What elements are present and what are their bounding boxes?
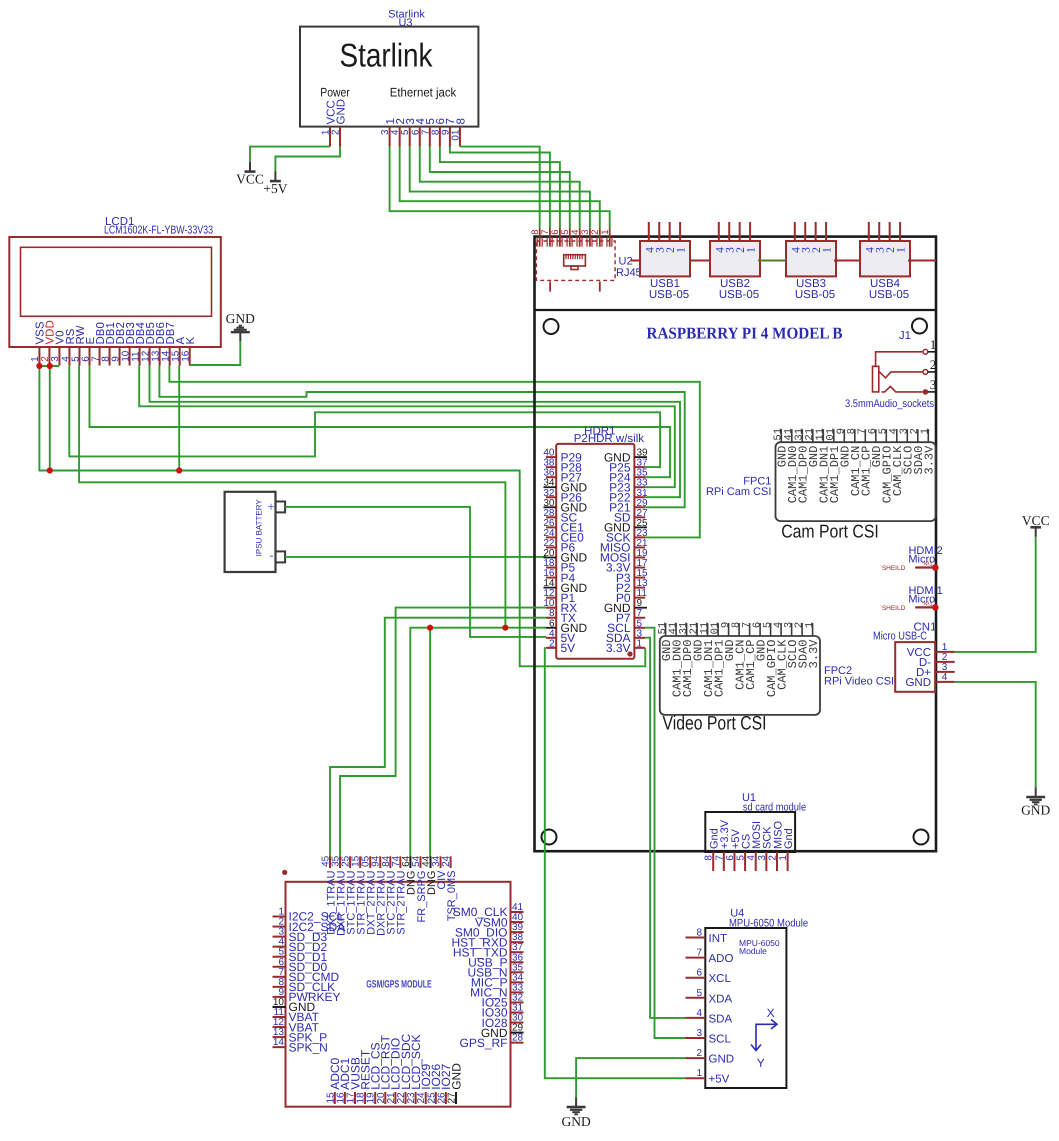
svg-text:1: 1 bbox=[896, 247, 908, 253]
svg-text:8: 8 bbox=[455, 118, 467, 124]
svg-text:LCM1602K-FL-YBW-33V33: LCM1602K-FL-YBW-33V33 bbox=[104, 225, 213, 237]
svg-text:USB-05: USB-05 bbox=[719, 289, 759, 301]
svg-text:5: 5 bbox=[736, 855, 747, 861]
svg-text:ADO: ADO bbox=[709, 953, 734, 965]
svg-text:Micro USB-C: Micro USB-C bbox=[873, 631, 927, 643]
svg-text:Gnd: Gnd bbox=[783, 828, 795, 849]
svg-text:4: 4 bbox=[570, 230, 581, 235]
svg-text:4: 4 bbox=[942, 672, 948, 683]
svg-text:Video Port CSI: Video Port CSI bbox=[663, 713, 767, 735]
svg-text:6: 6 bbox=[550, 230, 561, 235]
svg-text:P2HDR w/silk: P2HDR w/silk bbox=[574, 433, 645, 445]
svg-text:SHEILD: SHEILD bbox=[882, 605, 906, 612]
svg-text:3: 3 bbox=[930, 377, 937, 392]
svg-text:6: 6 bbox=[696, 968, 702, 979]
svg-text:U3: U3 bbox=[398, 17, 412, 29]
svg-text:1: 1 bbox=[778, 855, 789, 861]
svg-text:Ethernet jack: Ethernet jack bbox=[390, 86, 457, 100]
svg-text:GND: GND bbox=[561, 1114, 590, 1129]
svg-text:1: 1 bbox=[920, 428, 932, 434]
svg-text:RPi Cam CSI: RPi Cam CSI bbox=[706, 486, 771, 498]
svg-text:RASPBERRY PI 4 MODEL B: RASPBERRY PI 4 MODEL B bbox=[647, 324, 843, 343]
svg-text:USB-05: USB-05 bbox=[649, 289, 689, 301]
svg-text:K: K bbox=[185, 337, 197, 345]
svg-text:+5V: +5V bbox=[263, 181, 287, 196]
svg-text:3: 3 bbox=[696, 1028, 702, 1039]
svg-text:INT: INT bbox=[709, 933, 728, 945]
svg-text:IPSU BATTERY: IPSU BATTERY bbox=[255, 499, 264, 557]
svg-text:Starlink: Starlink bbox=[340, 37, 433, 74]
svg-text:8: 8 bbox=[704, 855, 715, 861]
svg-text:3: 3 bbox=[580, 230, 591, 235]
svg-text:TSR_0MS: TSR_0MS bbox=[446, 871, 458, 922]
svg-text:SHEILD: SHEILD bbox=[882, 565, 906, 572]
svg-text:3.3V: 3.3V bbox=[923, 445, 937, 475]
svg-text:GND: GND bbox=[709, 1054, 735, 1066]
svg-text:SCL: SCL bbox=[709, 1034, 732, 1046]
svg-text:XDA: XDA bbox=[709, 993, 733, 1005]
svg-text:sd card module: sd card module bbox=[743, 802, 806, 814]
svg-text:USB-05: USB-05 bbox=[869, 289, 909, 301]
svg-text:7: 7 bbox=[714, 855, 725, 861]
svg-text:1: 1 bbox=[676, 247, 688, 253]
svg-text:3.3V: 3.3V bbox=[606, 641, 631, 655]
svg-text:28: 28 bbox=[512, 1033, 524, 1044]
svg-text:GND: GND bbox=[335, 99, 347, 125]
svg-text:3.3V: 3.3V bbox=[807, 639, 821, 669]
svg-text:-: - bbox=[270, 548, 274, 562]
svg-text:2: 2 bbox=[549, 638, 555, 649]
svg-text:Module: Module bbox=[739, 946, 767, 956]
svg-text:14: 14 bbox=[273, 1037, 285, 1048]
svg-text:Cam Port CSI: Cam Port CSI bbox=[781, 521, 879, 542]
svg-text:1: 1 bbox=[696, 1068, 702, 1079]
svg-text:3.5mmAudio_sockets: 3.5mmAudio_sockets bbox=[845, 398, 934, 410]
svg-text:SDA: SDA bbox=[709, 1013, 733, 1025]
svg-text:Power: Power bbox=[320, 86, 350, 100]
svg-text:24: 24 bbox=[441, 855, 452, 867]
svg-text:27: 27 bbox=[447, 1092, 458, 1104]
svg-text:VCC: VCC bbox=[236, 172, 264, 187]
svg-text:1: 1 bbox=[746, 247, 758, 253]
svg-text:1: 1 bbox=[930, 337, 937, 352]
svg-text:MPU-6050 Module: MPU-6050 Module bbox=[729, 917, 808, 929]
svg-text:5: 5 bbox=[696, 988, 702, 999]
svg-text:1: 1 bbox=[600, 230, 611, 235]
svg-text:XCL: XCL bbox=[709, 973, 732, 985]
svg-text:RPi Video CSI: RPi Video CSI bbox=[824, 676, 894, 688]
svg-text:5V: 5V bbox=[561, 641, 576, 655]
svg-text:1: 1 bbox=[637, 638, 643, 649]
svg-text:GND: GND bbox=[905, 677, 931, 689]
svg-text:2: 2 bbox=[696, 1048, 702, 1059]
svg-text:GSM/GPS MODULE: GSM/GPS MODULE bbox=[366, 979, 432, 991]
svg-text:VCC: VCC bbox=[1022, 513, 1050, 528]
svg-text:2: 2 bbox=[590, 230, 601, 235]
svg-text:GND: GND bbox=[449, 1063, 463, 1090]
svg-text:7: 7 bbox=[696, 948, 702, 959]
svg-text:USB-05: USB-05 bbox=[795, 289, 835, 301]
svg-text:SPK_N: SPK_N bbox=[289, 1040, 328, 1054]
svg-text:6: 6 bbox=[725, 855, 736, 861]
svg-text:8: 8 bbox=[530, 230, 541, 235]
svg-text:GND: GND bbox=[226, 311, 255, 326]
svg-text:GND: GND bbox=[1021, 803, 1050, 818]
svg-text:2: 2 bbox=[930, 357, 937, 372]
svg-text:4: 4 bbox=[746, 855, 757, 861]
svg-text:Y: Y bbox=[757, 1056, 765, 1070]
svg-text:X: X bbox=[767, 1006, 775, 1020]
svg-text:4: 4 bbox=[696, 1008, 702, 1019]
svg-text:+5V: +5V bbox=[709, 1074, 730, 1086]
svg-text:2: 2 bbox=[767, 855, 778, 861]
svg-text:J1: J1 bbox=[899, 330, 911, 342]
svg-text:+: + bbox=[267, 499, 274, 514]
svg-text:RJ45: RJ45 bbox=[616, 267, 642, 279]
svg-text:8: 8 bbox=[696, 928, 702, 939]
svg-text:7: 7 bbox=[540, 230, 551, 235]
svg-text:5: 5 bbox=[560, 230, 571, 235]
svg-text:GPS_RF: GPS_RF bbox=[459, 1036, 507, 1050]
svg-text:1: 1 bbox=[822, 247, 834, 253]
svg-text:3: 3 bbox=[757, 855, 768, 861]
svg-text:1: 1 bbox=[804, 622, 816, 628]
